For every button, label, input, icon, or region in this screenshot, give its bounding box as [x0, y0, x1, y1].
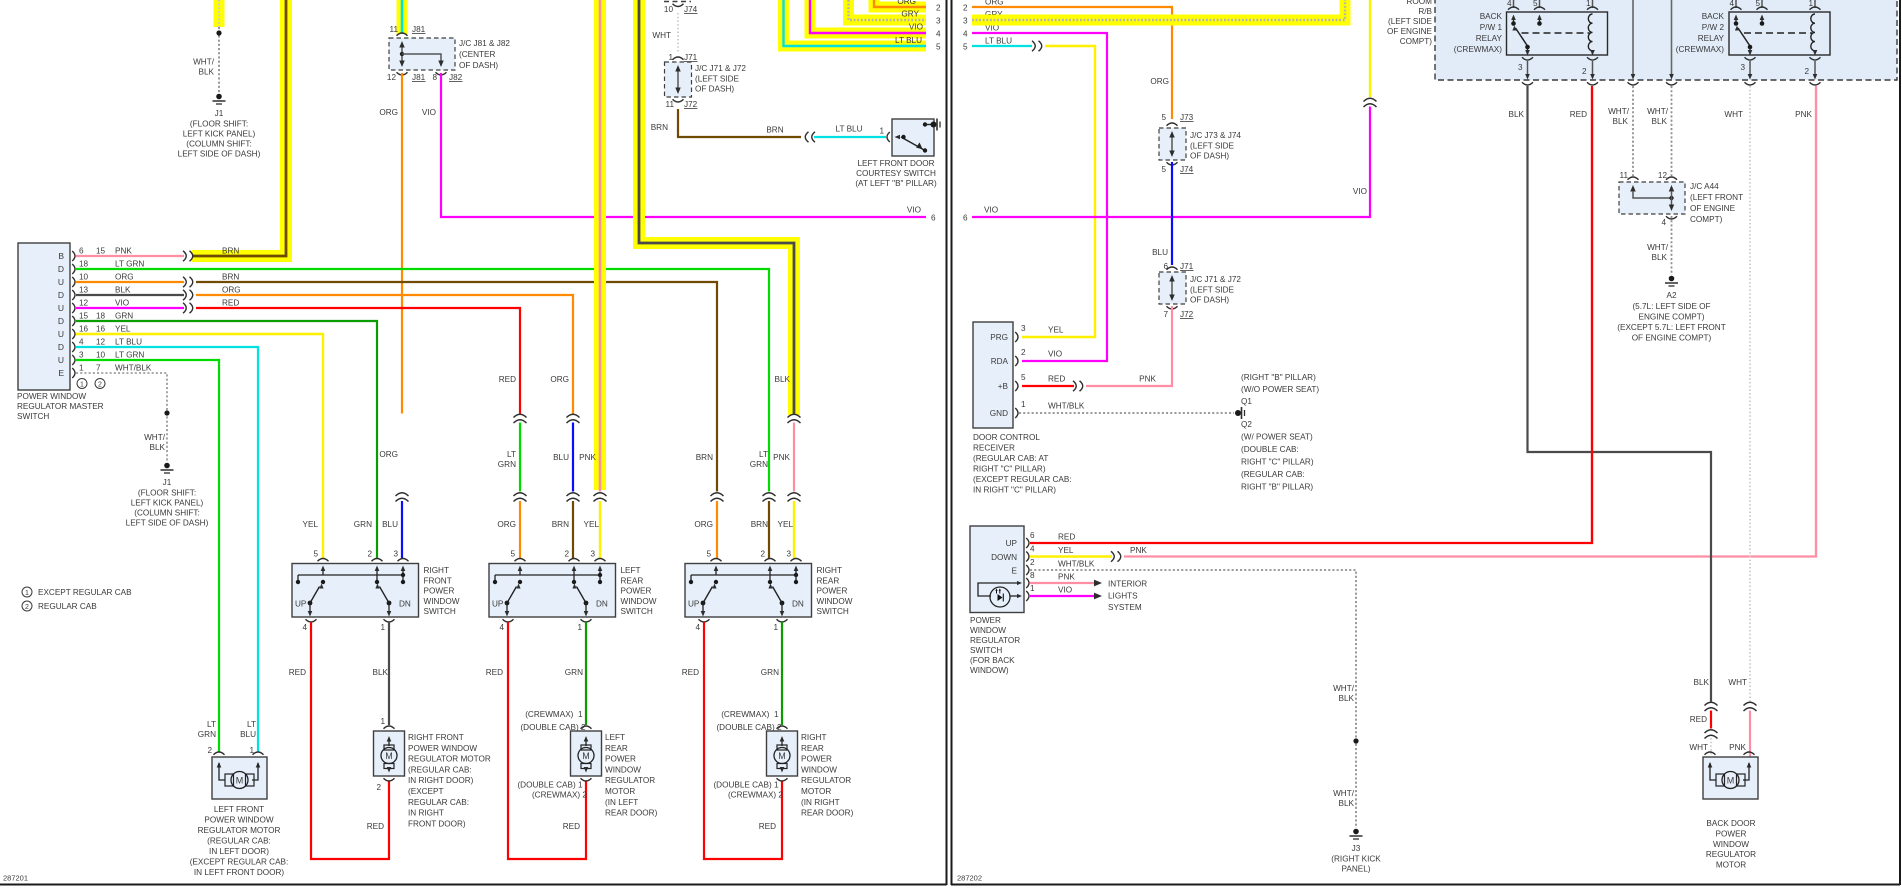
svg-text:GRN: GRN	[115, 312, 133, 321]
svg-text:MOTOR: MOTOR	[801, 787, 831, 796]
power window regulator switch (for back window)	[970, 526, 1024, 613]
svg-text:RED: RED	[499, 375, 516, 384]
svg-text:3: 3	[79, 351, 84, 360]
svg-text:6: 6	[1163, 262, 1168, 271]
wire LT BLU highlighted into J81 pin 11	[397, 0, 408, 34]
svg-text:4: 4	[963, 30, 968, 39]
wire VIO master pin 12	[76, 307, 184, 309]
svg-text:RIGHT "C" PILLAR): RIGHT "C" PILLAR)	[973, 465, 1046, 474]
wire WHT relay2 pin3	[1749, 86, 1751, 702]
svg-text:LT GRN: LT GRN	[115, 260, 144, 269]
svg-text:2: 2	[367, 550, 372, 559]
svg-text:2: 2	[1030, 558, 1035, 567]
svg-text:(REGULAR CAB:: (REGULAR CAB:	[1241, 470, 1305, 479]
svg-text:EXCEPT REGULAR CAB: EXCEPT REGULAR CAB	[38, 588, 132, 597]
left rear power window regulator motor	[571, 731, 602, 776]
wire BRN to right rear switch pin 2	[768, 501, 770, 558]
relay BACK P/W 1 (CREWMAX)	[1507, 12, 1608, 55]
inline connector RED/LT GRN	[514, 414, 527, 423]
inline connector PNK/YEL col6	[788, 493, 801, 502]
wire BLK relay1 pin3	[1528, 86, 1712, 702]
svg-text:BLK: BLK	[1339, 694, 1355, 703]
svg-text:ROOM: ROOM	[1407, 0, 1433, 6]
svg-text:8: 8	[432, 73, 437, 82]
wire RED rear switch pin 4 loop	[508, 622, 586, 859]
svg-text:P/W 2: P/W 2	[1702, 23, 1725, 32]
svg-text:RED: RED	[1570, 110, 1587, 119]
svg-text:5: 5	[510, 550, 515, 559]
svg-text:ORG: ORG	[222, 286, 241, 295]
svg-text:(5.7L: LEFT SIDE OF: (5.7L: LEFT SIDE OF	[1632, 302, 1710, 311]
wire GRY circuit 3 highlighted	[849, 0, 927, 20]
svg-text:15: 15	[79, 312, 89, 321]
svg-text:3: 3	[1518, 63, 1523, 72]
inline connector BLU/BRN	[567, 493, 580, 502]
svg-text:(W/O POWER SEAT): (W/O POWER SEAT)	[1241, 385, 1319, 394]
svg-text:5: 5	[313, 550, 318, 559]
inline connector RED/PNK	[1073, 381, 1083, 391]
inline connector PNK/YEL	[594, 493, 607, 502]
right rear power window switch	[685, 564, 812, 618]
inline connector WHT/PNK	[1744, 702, 1757, 711]
svg-text:10: 10	[664, 5, 674, 14]
junction connector J/C J81 & J82	[397, 33, 408, 36]
svg-text:IN LEFT FRONT DOOR): IN LEFT FRONT DOOR)	[194, 868, 284, 877]
svg-text:J/C J71 & J72: J/C J71 & J72	[695, 64, 746, 73]
svg-text:IN LEFT DOOR): IN LEFT DOOR)	[209, 847, 269, 856]
svg-text:LT: LT	[759, 450, 768, 459]
svg-text:12: 12	[1658, 171, 1668, 180]
svg-text:OF ENGINE COMPT): OF ENGINE COMPT)	[1632, 334, 1712, 343]
svg-text:WHT/: WHT/	[1608, 107, 1630, 116]
svg-text:GRN: GRN	[354, 520, 372, 529]
svg-text:REGULATOR: REGULATOR	[970, 636, 1020, 645]
wire WHT/BLK master pin 1 to ground J1	[76, 373, 167, 462]
svg-text:J/C J71 & J72: J/C J71 & J72	[1190, 275, 1241, 284]
svg-text:16: 16	[79, 325, 89, 334]
svg-text:2: 2	[1021, 348, 1026, 357]
svg-text:1: 1	[249, 746, 254, 755]
svg-text:LEFT KICK PANEL): LEFT KICK PANEL)	[183, 130, 256, 139]
svg-text:(DOUBLE CAB) 1: (DOUBLE CAB) 1	[517, 781, 583, 790]
back door power window regulator motor	[1703, 757, 1758, 799]
svg-text:LEFT FRONT: LEFT FRONT	[214, 805, 264, 814]
svg-text:PNK: PNK	[1795, 110, 1812, 119]
svg-text:WHT/: WHT/	[1333, 684, 1355, 693]
svg-text:ORG: ORG	[1150, 77, 1169, 86]
svg-text:WHT/: WHT/	[1647, 107, 1669, 116]
relay BACK P/W 2 (CREWMAX)	[1729, 12, 1830, 55]
svg-text:PNK: PNK	[773, 453, 790, 462]
svg-text:LT BLU: LT BLU	[895, 36, 922, 45]
svg-text:6: 6	[79, 247, 84, 256]
svg-text:WHT: WHT	[1724, 110, 1743, 119]
svg-text:BLU: BLU	[240, 730, 256, 739]
inline connector LT GRN/ORG	[514, 493, 527, 502]
ground J1 (second)	[164, 463, 170, 469]
svg-text:OF DASH): OF DASH)	[1190, 296, 1229, 305]
wire WHT/BLK back window switch pin 2 to J3	[1030, 570, 1356, 828]
svg-text:RED: RED	[289, 668, 306, 677]
svg-text:SWITCH: SWITCH	[621, 607, 653, 616]
svg-text:2: 2	[207, 746, 212, 755]
svg-text:4: 4	[936, 30, 941, 39]
left front power window regulator motor	[212, 757, 267, 799]
svg-text:U: U	[58, 303, 64, 313]
svg-text:J71: J71	[1180, 262, 1194, 271]
wire GRN master pin 15	[76, 321, 377, 558]
svg-text:DN: DN	[596, 600, 608, 609]
svg-text:PNK: PNK	[1130, 546, 1147, 555]
svg-text:MOTOR: MOTOR	[605, 787, 635, 796]
svg-text:RIGHT "B" PILLAR): RIGHT "B" PILLAR)	[1241, 483, 1313, 492]
svg-text:(EXCEPT REGULAR CAB:: (EXCEPT REGULAR CAB:	[190, 858, 289, 867]
svg-text:GRN: GRN	[198, 730, 216, 739]
wire BLU J74 to J71	[1171, 162, 1173, 265]
wire YEL to left rear switch pin 3	[599, 501, 601, 558]
svg-text:5: 5	[1161, 113, 1166, 122]
wire RED relay1 pin2	[1591, 86, 1593, 543]
legend note 1	[22, 587, 32, 597]
wire WHT J74 to J71	[677, 13, 679, 53]
svg-text:(CREWMAX) 1: (CREWMAX) 1	[721, 710, 779, 719]
svg-text:ORG: ORG	[379, 450, 398, 459]
svg-text:Q2: Q2	[1241, 420, 1252, 429]
svg-text:D: D	[58, 290, 64, 300]
svg-text:REAR DOOR): REAR DOOR)	[605, 809, 658, 818]
svg-text:(EXCEPT: (EXCEPT	[408, 787, 444, 796]
svg-text:UP: UP	[688, 600, 700, 609]
svg-text:WINDOW: WINDOW	[817, 597, 853, 606]
wire LT BLU to courtesy switch pin 1	[814, 136, 886, 138]
svg-text:6: 6	[963, 214, 968, 223]
svg-text:BRN: BRN	[222, 247, 239, 256]
svg-text:MOTOR: MOTOR	[1716, 861, 1746, 870]
wire BRN to left rear switch pin 2	[572, 501, 574, 558]
svg-text:3: 3	[590, 550, 595, 559]
svg-text:1: 1	[879, 127, 884, 136]
svg-text:GRN: GRN	[750, 460, 768, 469]
svg-text:REGULATOR: REGULATOR	[1706, 850, 1756, 859]
wire BLU mid col2	[572, 423, 574, 492]
pass-through WHT/BLK wires in relay block	[1632, 0, 1634, 74]
svg-text:LT GRN: LT GRN	[115, 351, 144, 360]
inline connector ORG/BLU col2	[567, 414, 580, 423]
wire BLK master pin 13	[76, 294, 184, 296]
wire YEL master pin 16	[76, 334, 323, 558]
wire PNK J72 to receiver	[1086, 306, 1172, 386]
svg-text:1: 1	[577, 623, 582, 632]
wire WHT/BLK relay block to J/C A44 pin 12	[1671, 86, 1673, 176]
left front door courtesy switch	[887, 132, 890, 142]
svg-text:UP: UP	[1006, 539, 1018, 548]
svg-text:P/W 1: P/W 1	[1480, 23, 1503, 32]
svg-text:RIGHT "C" PILLAR): RIGHT "C" PILLAR)	[1241, 458, 1314, 467]
svg-text:BRN: BRN	[751, 520, 768, 529]
wire LT GRN master pin 18	[76, 269, 769, 492]
svg-text:WHT/: WHT/	[1647, 243, 1669, 252]
svg-text:18: 18	[96, 312, 106, 321]
wire PNK highlighted (to left rear pin 3)	[594, 0, 606, 490]
svg-text:J74: J74	[684, 5, 698, 14]
svg-text:BRN: BRN	[222, 273, 239, 282]
svg-text:WHT/: WHT/	[1333, 789, 1355, 798]
svg-text:7: 7	[1163, 310, 1168, 319]
wire BLK highlighted (top to col6)	[639, 0, 794, 415]
svg-text:FRONT: FRONT	[424, 576, 452, 585]
svg-text:BLU: BLU	[553, 453, 569, 462]
svg-text:(IN RIGHT: (IN RIGHT	[801, 798, 840, 807]
ground A2	[1669, 276, 1675, 282]
svg-text:J81: J81	[412, 25, 426, 34]
wire YEL to door control receiver pin 3	[1022, 46, 1095, 337]
svg-text:M: M	[385, 751, 393, 761]
svg-text:IN RIGHT "C" PILLAR): IN RIGHT "C" PILLAR)	[973, 486, 1056, 495]
left rear power window switch	[489, 564, 616, 618]
wire PNK relay2 pin2	[1815, 86, 1817, 557]
svg-text:PRG: PRG	[990, 333, 1008, 342]
svg-text:4: 4	[695, 623, 700, 632]
svg-text:10: 10	[79, 273, 89, 282]
svg-text:WHT/: WHT/	[193, 58, 215, 67]
svg-text:2: 2	[963, 4, 968, 13]
svg-text:GND: GND	[990, 409, 1008, 418]
svg-text:YEL: YEL	[303, 520, 319, 529]
svg-text:U: U	[58, 277, 64, 287]
right panel frame	[951, 0, 953, 885]
svg-text:LT: LT	[207, 720, 216, 729]
svg-text:LT: LT	[507, 450, 516, 459]
wire LT BLU master pin 4	[76, 347, 258, 752]
junction connector J73 & J74 stub (cut at top)	[664, 1, 691, 3]
wire ORG continuation row4	[196, 295, 573, 414]
svg-text:5: 5	[963, 43, 968, 52]
svg-text:(EXCEPT 5.7L: LEFT FRONT: (EXCEPT 5.7L: LEFT FRONT	[1617, 323, 1725, 332]
svg-text:(LEFT SIDE: (LEFT SIDE	[1388, 17, 1433, 26]
svg-text:6: 6	[1030, 531, 1035, 540]
wire RED receiver +B	[1022, 385, 1074, 387]
svg-text:11: 11	[390, 25, 399, 34]
svg-text:(IN LEFT: (IN LEFT	[605, 798, 638, 807]
svg-text:GRY: GRY	[901, 10, 919, 19]
svg-text:RELAY: RELAY	[1476, 34, 1503, 43]
wire VIO circuit 6 from room R/B	[1369, 0, 1371, 97]
svg-text:RIGHT FRONT: RIGHT FRONT	[408, 733, 464, 742]
svg-text:RIGHT: RIGHT	[424, 566, 449, 575]
svg-text:4: 4	[79, 338, 84, 347]
svg-text:2: 2	[564, 550, 569, 559]
wire PNK to back door motor pin 2	[1749, 711, 1751, 765]
svg-text:4: 4	[1507, 0, 1512, 8]
svg-text:GRN: GRN	[498, 460, 516, 469]
svg-text:3: 3	[393, 550, 398, 559]
svg-text:POWER: POWER	[970, 616, 1001, 625]
svg-text:PNK: PNK	[1058, 573, 1075, 582]
svg-text:POWER: POWER	[801, 755, 832, 764]
svg-text:J82: J82	[449, 73, 463, 82]
svg-text:PNK: PNK	[1729, 743, 1746, 752]
svg-text:DN: DN	[399, 600, 411, 609]
wire PNK to back P/W 2 relay	[1124, 88, 1816, 557]
svg-text:BLK: BLK	[1509, 110, 1525, 119]
svg-text:(COLUMN SHIFT:: (COLUMN SHIFT:	[186, 140, 252, 149]
svg-text:(CENTER: (CENTER	[459, 50, 495, 59]
svg-text:J/C A44: J/C A44	[1690, 182, 1719, 191]
svg-text:BLK: BLK	[1652, 117, 1668, 126]
wire BRN highlighted (master row 1 to top)	[192, 0, 286, 256]
svg-text:YEL: YEL	[1048, 326, 1064, 335]
legend note 2	[22, 601, 32, 611]
junction connector J/C J71 & J72	[673, 57, 684, 60]
inline connector YEL/PNK	[1111, 551, 1121, 561]
svg-text:OF DASH): OF DASH)	[1190, 152, 1229, 161]
svg-text:INTERIOR: INTERIOR	[1108, 580, 1147, 589]
inline connector LT BLU/YEL	[1032, 41, 1042, 51]
svg-text:M: M	[236, 775, 244, 785]
svg-text:WHT/BLK: WHT/BLK	[115, 364, 152, 373]
svg-text:1: 1	[80, 382, 84, 389]
svg-text:(FLOOR SHIFT:: (FLOOR SHIFT:	[138, 489, 196, 498]
svg-text:(RIGHT KICK: (RIGHT KICK	[1331, 855, 1381, 864]
svg-text:REAR: REAR	[817, 576, 840, 585]
svg-text:BLK: BLK	[199, 68, 215, 77]
svg-text:B: B	[58, 251, 64, 261]
svg-text:COURTESY SWITCH: COURTESY SWITCH	[856, 169, 936, 178]
svg-text:WINDOW: WINDOW	[1713, 840, 1749, 849]
svg-text:(RIGHT "B" PILLAR): (RIGHT "B" PILLAR)	[1241, 373, 1316, 382]
svg-text:4: 4	[499, 623, 504, 632]
svg-text:WINDOW: WINDOW	[801, 765, 837, 774]
svg-text:REAR DOOR): REAR DOOR)	[801, 809, 854, 818]
svg-text:UP: UP	[492, 600, 504, 609]
svg-text:1: 1	[1808, 0, 1813, 8]
wire VIO back window switch pin 1	[1030, 595, 1094, 597]
svg-text:3: 3	[963, 17, 968, 26]
svg-text:2: 2	[936, 4, 941, 13]
wire WHT highlighted (top left)	[214, 0, 225, 27]
svg-text:13: 13	[79, 286, 89, 295]
svg-text:RECEIVER: RECEIVER	[973, 444, 1015, 453]
svg-text:LIGHTS: LIGHTS	[1108, 592, 1138, 601]
svg-text:J1: J1	[215, 109, 224, 118]
svg-text:2: 2	[25, 604, 29, 611]
wire ORG to left rear switch pin 5	[519, 501, 521, 558]
svg-text:(CREWMAX): (CREWMAX)	[1454, 45, 1502, 54]
svg-text:OF ENGINE: OF ENGINE	[1387, 27, 1433, 36]
svg-text:BLU: BLU	[382, 520, 398, 529]
svg-text:COMPT): COMPT)	[1400, 37, 1433, 46]
svg-text:LEFT KICK PANEL): LEFT KICK PANEL)	[131, 499, 204, 508]
svg-text:2: 2	[1582, 67, 1587, 76]
svg-text:RED: RED	[1690, 715, 1707, 724]
wire VIO circuit 4 to door control receiver	[972, 33, 1107, 361]
svg-text:WHT/: WHT/	[144, 433, 166, 442]
svg-text:2: 2	[1804, 67, 1809, 76]
svg-text:REGULAR CAB: REGULAR CAB	[38, 602, 97, 611]
svg-text:(DOUBLE CAB) 1: (DOUBLE CAB) 1	[713, 781, 779, 790]
svg-text:BLK: BLK	[115, 286, 131, 295]
svg-text:5: 5	[1755, 0, 1760, 8]
svg-text:LEFT FRONT DOOR: LEFT FRONT DOOR	[857, 159, 934, 168]
ground J3	[1353, 829, 1359, 835]
svg-text:J72: J72	[1180, 310, 1194, 319]
svg-text:POWER: POWER	[424, 587, 455, 596]
svg-text:FRONT DOOR): FRONT DOOR)	[408, 819, 466, 828]
wire BRN continuation row3	[196, 282, 717, 492]
svg-text:12: 12	[79, 299, 89, 308]
svg-text:RIGHT: RIGHT	[817, 566, 842, 575]
svg-text:ORG: ORG	[497, 520, 516, 529]
svg-text:BLK: BLK	[1339, 799, 1355, 808]
svg-text:(LEFT FRONT: (LEFT FRONT	[1690, 193, 1743, 202]
svg-text:VIO: VIO	[422, 108, 436, 117]
svg-text:REGULATOR MASTER: REGULATOR MASTER	[17, 402, 104, 411]
svg-text:YEL: YEL	[1058, 546, 1074, 555]
svg-text:REAR: REAR	[605, 744, 628, 753]
svg-text:RED: RED	[367, 822, 384, 831]
wire ORG from J81 pin 12	[401, 73, 403, 414]
svg-text:YEL: YEL	[584, 520, 600, 529]
wire ORG circuit 2 to J73	[972, 7, 1172, 119]
illumination lamp symbol	[978, 583, 1020, 596]
svg-text:2: 2	[760, 550, 765, 559]
svg-text:2: 2	[98, 382, 102, 389]
svg-text:(FOR BACK: (FOR BACK	[970, 656, 1015, 665]
svg-text:M: M	[1727, 775, 1735, 785]
wire RED continuation row5	[196, 308, 520, 414]
wire ORG circuit 2 highlighted	[874, 0, 926, 7]
svg-text:5: 5	[936, 43, 941, 52]
svg-text:Q1: Q1	[1241, 397, 1252, 406]
svg-text:(CREWMAX) 2: (CREWMAX) 2	[728, 791, 783, 800]
wire PNK back window switch pin 8	[1030, 582, 1094, 584]
svg-text:U: U	[58, 329, 64, 339]
svg-text:OF DASH): OF DASH)	[695, 85, 734, 94]
svg-text:M: M	[778, 751, 786, 761]
inline connector BLK/PNK	[788, 414, 801, 423]
svg-text:BACK: BACK	[1702, 12, 1725, 21]
svg-text:VIO: VIO	[1353, 187, 1367, 196]
svg-text:BACK DOOR: BACK DOOR	[1706, 819, 1755, 828]
svg-text:RED: RED	[563, 822, 580, 831]
door control receiver	[973, 322, 1013, 428]
svg-text:(CREWMAX): (CREWMAX)	[1676, 45, 1724, 54]
wire GRN rear switch pin 1 to motor	[781, 622, 783, 725]
svg-text:REGULATOR MOTOR: REGULATOR MOTOR	[198, 826, 281, 835]
left panel frame	[0, 884, 947, 886]
wire PNK mid col6	[793, 423, 795, 492]
svg-text:YEL: YEL	[115, 325, 131, 334]
svg-text:(REGULAR CAB:: (REGULAR CAB:	[408, 765, 472, 774]
wire RED segment	[1710, 711, 1712, 729]
case ground Q1/Q2	[1235, 410, 1241, 416]
svg-text:4: 4	[1729, 0, 1734, 8]
svg-text:(REGULAR CAB: AT: (REGULAR CAB: AT	[973, 454, 1048, 463]
svg-text:(W/ POWER SEAT): (W/ POWER SEAT)	[1241, 433, 1313, 442]
svg-text:POWER: POWER	[817, 587, 848, 596]
svg-text:REGULATOR: REGULATOR	[605, 776, 655, 785]
svg-text:PNK: PNK	[579, 453, 596, 462]
wire WHT/BLK receiver GND	[1019, 412, 1234, 414]
svg-text:(LEFT SIDE: (LEFT SIDE	[1190, 286, 1235, 295]
svg-text:2: 2	[376, 783, 381, 792]
svg-text:VIO: VIO	[907, 206, 921, 215]
svg-text:15: 15	[96, 247, 106, 256]
svg-text:WINDOW: WINDOW	[970, 626, 1006, 635]
svg-text:SWITCH: SWITCH	[17, 412, 49, 421]
wire ORG master pin 10	[76, 281, 184, 283]
svg-text:(DOUBLE CAB:: (DOUBLE CAB:	[1241, 445, 1299, 454]
